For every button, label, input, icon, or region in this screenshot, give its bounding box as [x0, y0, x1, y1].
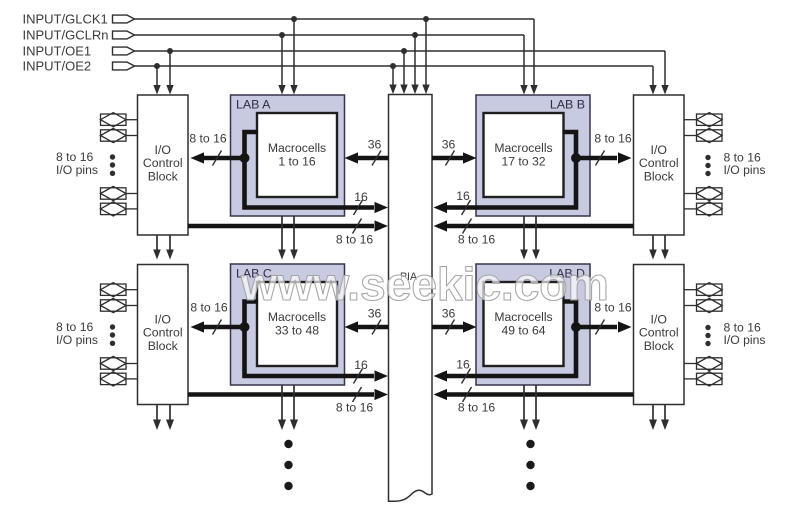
- svg-text:8 to 16: 8 to 16: [336, 233, 373, 247]
- svg-text:I/O: I/O: [155, 143, 171, 157]
- 36-wide bus PIA to LAB C: [345, 321, 389, 332]
- junction dot OE2/PIA: [390, 63, 396, 69]
- PIA interconnect column: [389, 95, 433, 502]
- svg-text:Macrocells: Macrocells: [494, 141, 552, 155]
- svg-text:I/O: I/O: [651, 143, 667, 157]
- svg-text:16: 16: [456, 189, 470, 203]
- ellipsis dots right-upper I/O pins: [705, 155, 710, 176]
- wire GLCK1 drop to PIA: [422, 19, 429, 94]
- 16-wide arrowhead LAB B to PIA: [434, 202, 448, 213]
- bus-width slash 16 right upper: [462, 200, 471, 215]
- svg-text:Macrocells: Macrocells: [268, 141, 326, 155]
- svg-text:I/O pins: I/O pins: [724, 333, 766, 347]
- thick bus inside LAB B: [447, 132, 576, 208]
- bus-width slash 36 left lower: [372, 320, 381, 335]
- input pin symbol INPUT/OE1: [113, 47, 135, 55]
- 8-to-16 bus LAB D to right I/O Control Block: [576, 321, 632, 332]
- svg-text:16: 16: [456, 358, 470, 372]
- I/O pin symbol left-lower 1: [101, 283, 138, 297]
- bus-width slash 36 left upper: [372, 151, 381, 166]
- svg-text:Macrocells: Macrocells: [268, 310, 326, 324]
- 8-to-16 bus right I/O block to PIA (upper): [434, 220, 634, 231]
- wire GLCK1 horizontal: [135, 18, 535, 20]
- svg-text:8 to 16: 8 to 16: [190, 301, 227, 315]
- bus-width slash 16 left lower: [354, 369, 363, 384]
- svg-text:I/O pins: I/O pins: [56, 333, 98, 347]
- wire OE1 drop to right I/O Control Block: [661, 51, 668, 95]
- I/O pin symbol left-upper 3: [101, 186, 138, 200]
- macrocell array box 1 to 16: [257, 113, 337, 197]
- 8-to-16 bus LAB C to left I/O Control Block: [191, 321, 245, 332]
- junction dot GCLRn/PIA: [412, 32, 418, 38]
- bus-width slash left 8-to-16 lower: [213, 320, 222, 335]
- wires below LAB D: [520, 385, 540, 430]
- label 8 to 16 I/O pins left-lower: [56, 320, 98, 347]
- I/O pin symbol right-lower 3: [684, 356, 722, 370]
- svg-text:8 to 16: 8 to 16: [458, 233, 495, 247]
- svg-text:Block: Block: [148, 170, 179, 184]
- svg-text:17 to 32: 17 to 32: [501, 155, 545, 169]
- junction dot OE1/left I/O: [167, 48, 173, 54]
- 36-wide bus PIA to LAB A: [345, 152, 389, 163]
- macrocell array box 17 to 32: [484, 113, 564, 197]
- svg-text:I/O: I/O: [155, 312, 171, 326]
- 8-to-16 bus left I/O block to PIA (lower): [188, 389, 388, 400]
- wires below left I/O lower: [153, 405, 174, 431]
- thick bus inside LAB D: [447, 302, 576, 377]
- 36-wide bus PIA to LAB B: [432, 152, 477, 163]
- svg-text:I/O: I/O: [651, 312, 667, 326]
- I/O pin symbol left-lower 3: [101, 356, 138, 370]
- I/O pin symbol right-upper 1: [684, 113, 722, 127]
- ellipsis dots left-upper I/O pins: [110, 154, 115, 176]
- wire GCLRn horizontal: [135, 34, 525, 36]
- 16-wide arrowhead LAB D to PIA: [434, 370, 448, 381]
- wire OE1 drop to PIA: [400, 51, 407, 94]
- 16-wide arrowhead LAB C to PIA: [375, 370, 389, 381]
- thick bus inside LAB A: [245, 132, 375, 208]
- svg-text:8 to 16: 8 to 16: [594, 132, 631, 146]
- LAB block LAB D: [476, 264, 590, 385]
- svg-text:36: 36: [442, 138, 456, 152]
- svg-text:Control: Control: [143, 156, 183, 170]
- I/O pin symbol right-upper 2: [684, 128, 722, 142]
- 16-wide arrowhead LAB A to PIA: [375, 202, 389, 213]
- input pin symbol INPUT/OE2: [113, 62, 135, 70]
- wire GCLRn drop to PIA: [411, 35, 418, 94]
- right I/O Control Block (lower): [634, 265, 685, 405]
- svg-text:8 to 16: 8 to 16: [336, 401, 373, 415]
- right I/O Control Block (upper): [634, 95, 685, 235]
- svg-text:49 to 64: 49 to 64: [501, 324, 545, 338]
- svg-text:INPUT/OE2: INPUT/OE2: [23, 58, 92, 73]
- ellipsis dots below LAB C: [284, 440, 292, 490]
- I/O pin symbol left-lower 2: [101, 298, 138, 312]
- ellipsis dots right-lower I/O pins: [705, 325, 710, 346]
- svg-text:I/O pins: I/O pins: [56, 163, 98, 177]
- I/O pin symbol right-lower 4: [684, 372, 722, 386]
- wires below right I/O lower: [649, 405, 669, 431]
- svg-text:I/O pins: I/O pins: [724, 163, 766, 177]
- junction dot GCLRn/LAB A: [279, 32, 285, 38]
- svg-text:LAB A: LAB A: [236, 98, 271, 112]
- wires LAB B to LAB D: [520, 216, 540, 260]
- junction dot on LAB A bus: [240, 153, 250, 163]
- wire GCLRn drop to LAB A: [278, 35, 285, 95]
- wire GLCK1 drop to LAB B: [530, 19, 537, 95]
- svg-text:INPUT/GLCK1: INPUT/GLCK1: [23, 11, 108, 26]
- svg-text:Control: Control: [639, 326, 679, 340]
- svg-text:www.seekic.com: www.seekic.com: [240, 258, 609, 310]
- ellipsis dots left-lower I/O pins: [110, 324, 115, 346]
- wires LAB A to LAB C: [278, 216, 298, 260]
- I/O pin symbol right-lower 1: [684, 283, 722, 297]
- bus-width slash right 8-to-16 upper: [596, 151, 605, 166]
- I/O pin symbol left-upper 4: [101, 202, 138, 216]
- input pin symbol INPUT/GCLRn: [113, 31, 135, 39]
- label 8 to 16 I/O pins left-upper: [56, 150, 98, 177]
- label 8 to 16 I/O pins right-lower: [724, 321, 766, 348]
- svg-text:Control: Control: [143, 326, 183, 340]
- svg-text:Block: Block: [644, 170, 675, 184]
- wire OE2 drop to PIA: [389, 66, 396, 94]
- bus-width slash 16 right lower: [462, 369, 471, 384]
- bus-width slash 36 right upper: [446, 151, 455, 166]
- svg-text:8 to 16: 8 to 16: [458, 401, 495, 415]
- 8-to-16 bus left I/O block to PIA (upper): [188, 220, 388, 231]
- 8-to-16 bus LAB B to right I/O Control Block: [576, 152, 632, 163]
- junction dot OE1/PIA: [401, 48, 407, 54]
- macrocell array box 49 to 64: [484, 282, 564, 366]
- I/O pin symbol left-upper 1: [101, 113, 138, 127]
- bus-width slash right 8-to-16 lower: [596, 320, 605, 335]
- wire OE1 drop to left I/O Control Block: [166, 51, 173, 95]
- svg-text:INPUT/OE1: INPUT/OE1: [23, 43, 92, 58]
- thick bus inside LAB C: [245, 302, 375, 377]
- svg-text:8 to 16: 8 to 16: [56, 320, 93, 334]
- bus-width slash 8-to-16 right PIA upper: [463, 219, 472, 234]
- wires below LAB C: [278, 385, 298, 430]
- svg-text:Macrocells: Macrocells: [494, 310, 552, 324]
- LAB block LAB A: [231, 95, 345, 216]
- ellipsis dots below LAB D: [526, 440, 534, 490]
- 8-to-16 bus LAB A to left I/O Control Block: [191, 152, 245, 163]
- I/O pin symbol left-lower 4: [101, 372, 138, 386]
- svg-text:33 to 48: 33 to 48: [275, 324, 319, 338]
- svg-text:8 to 16: 8 to 16: [56, 150, 93, 164]
- bus-width slash 36 right lower: [446, 320, 455, 335]
- svg-text:36: 36: [368, 138, 382, 152]
- wire OE2 horizontal: [135, 65, 654, 67]
- svg-text:16: 16: [354, 190, 368, 204]
- bus-width slash 8-to-16 left PIA upper: [353, 219, 362, 234]
- junction dot GLCK1/LAB A: [291, 16, 297, 22]
- input pin symbol INPUT/GLCK1: [113, 15, 135, 23]
- wire OE2 drop to right I/O Control Block: [649, 66, 656, 95]
- wire OE1 horizontal: [135, 50, 666, 52]
- LAB block LAB C: [231, 264, 345, 385]
- svg-text:1 to 16: 1 to 16: [278, 155, 315, 169]
- svg-text:INPUT/GCLRn: INPUT/GCLRn: [23, 27, 109, 42]
- I/O pin symbol right-lower 2: [684, 298, 722, 312]
- wire GCLRn drop to LAB B: [520, 35, 527, 95]
- wires right I/O upper to lower: [649, 235, 669, 260]
- wire GLCK1 drop to LAB A: [290, 19, 297, 95]
- junction dot OE2/left I/O: [154, 63, 160, 69]
- svg-text:LAB B: LAB B: [550, 98, 585, 112]
- LAB block LAB B: [476, 95, 590, 216]
- I/O pin symbol right-upper 4: [684, 202, 722, 216]
- bus-width slash 16 left upper: [354, 200, 363, 215]
- bus-width slash 8-to-16 right PIA lower: [463, 387, 472, 402]
- junction dot on LAB B bus: [571, 153, 581, 163]
- wires left I/O upper to lower: [153, 235, 174, 260]
- wire OE2 drop to left I/O Control Block: [153, 66, 160, 95]
- junction dot on LAB D bus: [571, 322, 581, 332]
- left I/O Control Block (upper): [138, 95, 189, 235]
- I/O pin symbol left-upper 2: [101, 128, 138, 142]
- junction dot on LAB C bus: [240, 322, 250, 332]
- macrocell array box 33 to 48: [257, 282, 337, 366]
- svg-text:Block: Block: [148, 339, 179, 353]
- bus-width slash left 8-to-16 upper: [213, 151, 222, 166]
- left I/O Control Block (lower): [138, 265, 189, 405]
- 8-to-16 bus right I/O block to PIA (lower): [434, 389, 634, 400]
- svg-text:16: 16: [354, 358, 368, 372]
- 36-wide bus PIA to LAB D: [432, 321, 477, 332]
- svg-text:Control: Control: [639, 156, 679, 170]
- svg-text:Block: Block: [644, 339, 675, 353]
- I/O pin symbol right-upper 3: [684, 186, 722, 200]
- svg-text:8 to 16: 8 to 16: [189, 132, 226, 146]
- junction dot GLCK1/PIA: [423, 16, 429, 22]
- label 8 to 16 I/O pins right-upper: [724, 151, 766, 178]
- bus-width slash 8-to-16 left PIA lower: [353, 387, 362, 402]
